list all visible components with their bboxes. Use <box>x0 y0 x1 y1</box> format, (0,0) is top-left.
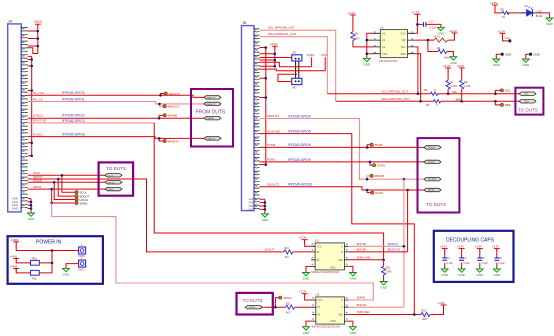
svg-text:SDOUT2: SDOUT2 <box>267 183 280 187</box>
transistor U3 mux SN74LVC2G3157 <box>312 293 349 329</box>
resistor R9 1K <box>495 5 520 19</box>
svg-text:VCC: VCC <box>317 245 322 248</box>
wire JB to jumper JP1 <box>260 57 292 59</box>
svg-text:(BCKLT): (BCKLT) <box>388 242 399 246</box>
net label +5V0 <box>321 53 328 71</box>
svg-text:A2: A2 <box>382 45 386 49</box>
resistor R11 100K pulldown <box>382 260 392 282</box>
netlabel tag PCM0 <box>204 96 221 100</box>
svg-text:IFPCM0-GPIO6: IFPCM0-GPIO6 <box>288 143 311 147</box>
jumper JP2 bottom <box>292 78 302 89</box>
svg-text:+3.3V: +3.3V <box>347 11 355 15</box>
svg-text:R8: R8 <box>464 80 468 84</box>
svg-text:MUS1B: MUS1B <box>428 178 437 181</box>
svg-text:IFPCM0-GPIO1: IFPCM0-GPIO1 <box>62 98 85 102</box>
svg-text:SYNC2: SYNC2 <box>33 132 43 136</box>
ground JB <box>262 214 270 222</box>
svg-text:MAX1TX: MAX1TX <box>169 92 180 96</box>
svg-text:+3.3V: +3.3V <box>412 10 420 14</box>
svg-text:+3.3V: +3.3V <box>443 64 451 68</box>
wire U3 VCC <box>305 294 312 300</box>
pad POS5 <box>78 244 85 258</box>
connector JA pin number smudges <box>23 27 25 208</box>
svg-text:+3.3V: +3.3V <box>449 29 457 33</box>
svg-text:PCM1: PCM1 <box>267 158 276 162</box>
pin LRCLK testpoint <box>75 198 89 202</box>
ground U1 <box>363 58 371 66</box>
svg-text:MAX8TX: MAX8TX <box>207 137 216 140</box>
netlabel tag LRCLK <box>105 181 122 185</box>
wire U1 VCC net <box>415 14 441 33</box>
junction spare bus <box>30 65 33 68</box>
svg-text:+3.3V: +3.3V <box>438 301 446 305</box>
svg-text:R4: R4 <box>437 46 441 50</box>
power +3.3V SCL pullup <box>443 64 451 70</box>
svg-text:SDIN1: SDIN1 <box>80 201 89 205</box>
wire jumper select A <box>260 62 312 66</box>
netlabel tag SDIN2 <box>245 306 262 310</box>
svg-text:VCC: VCC <box>317 299 322 302</box>
svg-text:VCC: VCC <box>400 31 406 35</box>
wire net SDOUT1 / IFPCM0-GPIO4 <box>260 114 425 180</box>
svg-text:4K7: 4K7 <box>355 37 360 41</box>
svg-text:+3.3V: +3.3V <box>440 245 447 249</box>
svg-text:IFPCM0-GPIO10: IFPCM0-GPIO10 <box>288 183 312 187</box>
svg-text:4K64: 4K64 <box>444 56 451 60</box>
svg-text:SCIN-SEL: SCIN-SEL <box>267 129 281 133</box>
wire via FB2 <box>16 251 53 273</box>
wire net SDI route to U3 <box>52 203 374 300</box>
svg-text:R3 0: R3 0 <box>435 35 441 39</box>
svg-text:+3.3V: +3.3V <box>299 236 307 240</box>
svg-text:MAX1CX: MAX1CX <box>168 105 180 109</box>
power +3.3V LED <box>490 1 499 7</box>
svg-text:R12: R12 <box>286 303 291 306</box>
ground R4 <box>450 57 458 65</box>
svg-text:POWER IN: POWER IN <box>36 240 62 246</box>
power +3.3V JB <box>270 42 278 48</box>
svg-text:0.1µF: 0.1µF <box>447 262 454 265</box>
capacitor C6 0.1uF <box>494 249 505 269</box>
netlabel tag MAX8TX <box>204 137 221 141</box>
svg-text:4K7: 4K7 <box>286 312 291 315</box>
power +VDD <box>11 238 20 244</box>
svg-text:R13: R13 <box>422 309 427 312</box>
pin MAX8B <box>163 114 177 118</box>
svg-text:R2: R2 <box>355 32 359 36</box>
svg-text:GND: GND <box>249 204 255 208</box>
svg-text:U1: U1 <box>380 25 384 29</box>
svg-text:WP: WP <box>402 38 406 42</box>
svg-text:+3.3V: +3.3V <box>270 42 278 46</box>
connector JA pin numbers <box>22 28 24 206</box>
wire net SCL bus <box>327 89 519 95</box>
power +3.3V cap C5 <box>475 245 483 251</box>
connector JA body <box>8 20 22 212</box>
wire U1 A0 A1 VSS to ground <box>366 33 373 58</box>
svg-text:VSS: VSS <box>382 52 387 56</box>
wire net SDIN1-SEL <box>349 256 385 262</box>
box TO DUTS left <box>99 162 134 195</box>
capacitor C3 0.1uF <box>442 249 453 269</box>
wire net BCK vertical V1 <box>403 179 405 307</box>
wire net SCIN-SEL / IFPCM0-GPIO5 <box>260 129 415 314</box>
wire net SYNC1 / IFPCM0-GPIO2 <box>28 113 204 119</box>
svg-text:R11: R11 <box>386 267 391 270</box>
svg-text:GND: GND <box>249 201 255 205</box>
svg-text:PCKB: PCKB <box>375 143 383 147</box>
svg-text:SCL: SCL <box>524 93 529 96</box>
svg-text:SEL: SEL <box>338 259 343 262</box>
svg-text:BLUE: BLUE <box>536 15 543 18</box>
pin MUS2 testpoint <box>371 191 384 195</box>
resistor R3 0 ohm WP <box>415 33 454 42</box>
wire net BCK2B <box>349 248 408 252</box>
netlabel tag MUS2 <box>424 188 441 192</box>
junction spare bus <box>30 89 33 92</box>
resistor R12 4K7 SDIN2 <box>286 303 312 315</box>
power +VIN2 input <box>10 264 20 270</box>
svg-text:GND: GND <box>249 207 255 211</box>
svg-text:R10: R10 <box>285 247 290 250</box>
wire net SCL-I/PPCM0_OUT <box>260 26 336 102</box>
svg-text:R9: R9 <box>501 7 505 11</box>
netlabel tag PCKB <box>424 146 441 150</box>
netlabel tag SCLK <box>105 174 122 178</box>
ground U2 right <box>349 266 357 280</box>
svg-text:2.21K: 2.21K <box>450 84 457 88</box>
ground R11 <box>380 282 388 290</box>
svg-text:R7: R7 <box>450 80 454 84</box>
capacitor C5 0.1uF <box>477 249 488 269</box>
wire net SDOUT2 / IFPCM0-GPIO10 <box>260 183 425 193</box>
op-amp U1 EEPROM 24LC010 <box>373 25 416 62</box>
svg-text:JB: JB <box>242 21 247 25</box>
svg-text:SDIN: SDIN <box>108 189 114 191</box>
svg-text:SCL: SCL <box>505 89 511 93</box>
ground U3 left <box>303 321 312 335</box>
resistor R2 4K7 <box>351 15 373 47</box>
junction spare bus <box>30 155 33 158</box>
svg-text:U2: U2 <box>315 239 319 243</box>
svg-text:SDIN1-SEL: SDIN1-SEL <box>357 256 372 260</box>
svg-text:+3.3V: +3.3V <box>475 245 482 249</box>
netlabel tag PCM1 <box>204 102 221 106</box>
svg-text:SDIM2: SDIM2 <box>357 296 366 300</box>
pin PCKN testpoint <box>372 163 384 167</box>
wire U2 VCC <box>305 240 312 247</box>
svg-text:+3.3V: +3.3V <box>492 245 499 249</box>
svg-text:MAX8B: MAX8B <box>207 117 215 120</box>
svg-text:MAX8TX: MAX8TX <box>168 139 179 143</box>
wire net SDIN2 <box>262 298 286 309</box>
svg-text:102K: 102K <box>422 318 428 321</box>
svg-text:SEL: SEL <box>338 314 343 317</box>
svg-text:FB1: FB1 <box>32 256 37 260</box>
svg-text:JA: JA <box>8 20 13 24</box>
wire via FB1 <box>16 258 52 263</box>
netlabel tag SCL <box>519 92 536 96</box>
power +3.3V SDIN-SEL <box>438 301 447 307</box>
netlabel tag MUS1B <box>424 178 441 182</box>
wire net SCLK <box>28 171 105 192</box>
wire net PA_CS / IFPCM0-GPIO1 <box>28 97 204 106</box>
svg-text:+3.3V: +3.3V <box>497 29 505 33</box>
power +3.3V at WP <box>449 29 457 35</box>
svg-text:DOUT SD: DOUT SD <box>33 119 47 123</box>
svg-text:+VIN2: +VIN2 <box>10 264 18 268</box>
wire U1 SCL drop <box>415 47 418 94</box>
wire net DOUT_SD / IFPCM0-GPIO3 <box>28 119 155 123</box>
svg-text:0.1µF: 0.1µF <box>482 262 489 265</box>
jumper JP1 top <box>292 51 302 61</box>
resistor R8 2.21K <box>460 68 471 101</box>
wire net PA_CLK / IFPCM0-GPIO0 <box>28 91 204 97</box>
svg-text:24LC010-I/SN: 24LC010-I/SN <box>379 59 397 63</box>
net label GND2 <box>307 53 315 67</box>
svg-text:TO DUTS: TO DUTS <box>518 107 538 112</box>
svg-text:IFPCM0-GPIO9: IFPCM0-GPIO9 <box>288 158 311 162</box>
JB GND pin names <box>249 197 255 211</box>
pin SDIN2 testpoint <box>279 296 292 300</box>
svg-text:4K7: 4K7 <box>285 256 290 259</box>
svg-text:+3.3V: +3.3V <box>456 64 464 68</box>
power +3.3V at U1 VCC <box>412 10 421 16</box>
svg-text:JP2: JP2 <box>292 85 297 89</box>
svg-text:IFPCM0-GPIO0: IFPCM0-GPIO0 <box>62 91 85 95</box>
svg-text:FB2: FB2 <box>32 276 37 280</box>
ferrite FB1 <box>31 256 40 265</box>
wire net DOUT to SDOUT feed <box>28 175 284 252</box>
box TO DUTS mid-right <box>418 138 460 212</box>
svg-text:(BCKLT2): (BCKLT2) <box>388 248 400 252</box>
svg-text:IFPCM0-GPIO8: IFPCM0-GPIO8 <box>62 133 85 137</box>
junction on +VCC bus <box>37 37 40 40</box>
svg-text:JP1: JP1 <box>292 51 297 55</box>
resistor R6 0 ohm SDA <box>426 100 441 107</box>
svg-text:IFPCM0-GPIO3: IFPCM0-GPIO3 <box>62 119 85 123</box>
power +VCC top of JA <box>34 20 43 26</box>
svg-text:BCK1B: BCK1B <box>357 242 366 246</box>
svg-text:TO DUTS: TO DUTS <box>426 202 446 207</box>
power +3.3V cap C3 <box>440 245 448 251</box>
svg-text:3.3V: 3.3V <box>505 37 510 40</box>
power +3.3V U3 <box>299 290 308 296</box>
wire net VDD <box>16 242 78 252</box>
svg-text:MAX1TX: MAX1TX <box>207 96 216 99</box>
wire jumper select B <box>260 69 326 71</box>
ground U3 right <box>349 321 357 335</box>
svg-text:+VCC: +VCC <box>34 20 43 24</box>
svg-text:GND: GND <box>78 268 84 271</box>
svg-text:BCK2N: BCK2N <box>357 303 366 307</box>
svg-text:SDIN2: SDIN2 <box>249 307 256 309</box>
ground C6 <box>493 269 501 277</box>
svg-text:MUS2: MUS2 <box>428 189 435 192</box>
svg-text:GND: GND <box>330 267 336 270</box>
svg-text:PA_CS: PA_CS <box>33 97 43 101</box>
pin MUS1B testpoint <box>370 174 384 178</box>
pin PCKB testpoint <box>370 143 382 147</box>
wire net BCK1B <box>349 242 406 248</box>
pin SCL testpoint <box>500 89 510 93</box>
pin SDIN1 testpoint <box>75 201 88 205</box>
svg-text:MUS2: MUS2 <box>375 191 383 195</box>
svg-text:DECOUPLING CAPS: DECOUPLING CAPS <box>446 238 495 244</box>
svg-text:+VIN1: +VIN1 <box>10 254 18 258</box>
svg-text:C2: C2 <box>430 19 434 23</box>
ground C2 <box>438 27 446 35</box>
wire jumper links <box>296 61 299 78</box>
svg-text:+VDD: +VDD <box>11 238 19 242</box>
svg-text:2.21K: 2.21K <box>464 84 471 88</box>
svg-text:GND2: GND2 <box>307 53 315 57</box>
wire JA ground ties <box>28 199 31 213</box>
netlabel tag MAX8B <box>204 117 221 121</box>
ground C3 <box>441 269 449 277</box>
svg-text:SDA: SDA <box>400 52 406 56</box>
pin SCLK testpoint <box>75 191 87 195</box>
wire net SDIN-SEL <box>349 310 422 316</box>
svg-text:PCKB: PCKB <box>428 146 435 149</box>
ground C5 <box>476 269 484 277</box>
wire net BCK2N <box>349 303 404 307</box>
svg-text:BCK2B: BCK2B <box>357 248 366 252</box>
svg-text:+5V0: +5V0 <box>321 53 328 57</box>
connector JB pins <box>254 28 260 208</box>
svg-text:SCL-I/PPCM0_OUT: SCL-I/PPCM0_OUT <box>268 26 295 30</box>
svg-text:TO DUTS: TO DUTS <box>243 298 263 303</box>
svg-text:SDA-N/PPCM1_OUT: SDA-N/PPCM1_OUT <box>268 32 297 36</box>
svg-text:FROM DUTS: FROM DUTS <box>196 110 226 116</box>
svg-text:MAX1CX: MAX1CX <box>207 103 217 106</box>
svg-text:GND: GND <box>534 53 540 57</box>
pad GNDP <box>78 257 85 271</box>
svg-text:SDOUT: SDOUT <box>265 248 275 252</box>
svg-text:GND: GND <box>249 197 255 201</box>
wire JB spare bus <box>260 46 268 166</box>
svg-text:A0: A0 <box>382 31 386 35</box>
svg-text:PA_CLK: PA_CLK <box>33 91 44 95</box>
wire +VCC vertical bus <box>28 24 38 53</box>
ground testpoint 2 <box>522 59 530 67</box>
JA GND pin names <box>12 197 18 211</box>
capacitor C2 0.1uF <box>424 19 437 29</box>
svg-text:PCKN: PCKN <box>428 161 435 164</box>
svg-text:MAX8B: MAX8B <box>168 114 178 118</box>
resistor R4 4K64 WP pulldown <box>428 40 454 60</box>
power +V3V3 input <box>10 254 20 260</box>
netlabel tag PCKN <box>424 160 441 164</box>
pin +3.3V testpoint <box>497 29 511 42</box>
svg-text:R6: R6 <box>426 103 430 107</box>
ground JA <box>28 213 36 221</box>
wire net PCM1 / IFPCM0-GPIO9 <box>260 158 425 166</box>
svg-text:+3.3V: +3.3V <box>299 290 307 294</box>
svg-text:R5: R5 <box>424 88 428 92</box>
box FROM DUTS <box>191 89 233 147</box>
svg-text:SCL: SCL <box>452 90 458 94</box>
wire jumper JP2 stub <box>278 74 297 81</box>
ground C4 <box>458 269 466 277</box>
wire net SDA-N/PPCM1_OUT <box>260 32 328 94</box>
ground LED <box>546 18 554 26</box>
connector JB pin numbers <box>255 29 257 207</box>
svg-text:SCL-I/PPCM0_OUT: SCL-I/PPCM0_OUT <box>382 89 409 93</box>
svg-text:0.1µF: 0.1µF <box>499 262 506 265</box>
wire LED cathode to ground <box>532 12 534 14</box>
svg-text:0.1µF: 0.1µF <box>463 262 470 265</box>
netlabel tag SDIN <box>105 187 122 191</box>
svg-text:U3: U3 <box>316 293 320 297</box>
power +3.3V at U1 pullup <box>347 11 356 17</box>
power +3.3V cap C6 <box>492 245 500 251</box>
pin GND testpoint 2 <box>526 53 540 60</box>
svg-text:A1: A1 <box>382 38 386 42</box>
svg-text:IFPCM0-GPIO4: IFPCM0-GPIO4 <box>288 114 311 118</box>
ground testpoint 1 <box>493 59 501 67</box>
box POWER IN <box>8 236 103 284</box>
pin SDOUT testpoint <box>75 194 90 198</box>
junction on +VCC bus <box>37 30 40 33</box>
box TO DUTS top-right <box>515 88 543 115</box>
wire net SDA bus <box>336 97 519 105</box>
svg-text:LRCLK: LRCLK <box>33 178 42 182</box>
ferrite FB2 <box>31 270 40 280</box>
svg-text:SN74LVC2G3157DCUR: SN74LVC2G3157DCUR <box>312 324 340 328</box>
LED D1 blue <box>520 4 543 18</box>
svg-text:PCM0: PCM0 <box>267 143 276 147</box>
svg-text:SCL: SCL <box>401 45 407 49</box>
svg-text:MUS1B: MUS1B <box>375 174 385 178</box>
svg-text:TO DUTS: TO DUTS <box>106 166 126 171</box>
pin MAX1CX <box>163 105 179 109</box>
svg-text:IFPCM0-GPIO5: IFPCM0-GPIO5 <box>288 130 311 134</box>
connector JB pin number smudges <box>256 28 258 210</box>
pin MAX1TX <box>164 92 180 96</box>
wire JB ground ties <box>260 199 265 214</box>
svg-text:SYNC1: SYNC1 <box>33 113 43 117</box>
svg-text:PCKN: PCKN <box>377 163 385 167</box>
wire JA spare-pin bus <box>28 56 32 155</box>
wire net PCM0 / IFPCM0-GPIO6 <box>260 143 425 149</box>
wire pad GND to ground <box>66 264 79 269</box>
svg-text:SDA-N/PPCM1_OUT: SDA-N/PPCM1_OUT <box>382 97 411 101</box>
svg-text:100K: 100K <box>386 271 392 274</box>
pin SDA testpoint <box>500 103 510 107</box>
ground U2 left <box>303 266 312 280</box>
junction spare bus <box>30 58 33 61</box>
svg-text:SDIN1: SDIN1 <box>33 185 42 189</box>
pin MAX8TX <box>163 139 179 143</box>
box DECOUPLING CAPS <box>434 231 514 282</box>
svg-text:SCLK: SCLK <box>108 175 114 177</box>
svg-text:GND: GND <box>505 53 511 57</box>
svg-text:LRCLK: LRCLK <box>108 182 116 184</box>
resistor R5 0 ohm SCL <box>424 88 438 95</box>
svg-text:SN74LVC2G3157DCUR: SN74LVC2G3157DCUR <box>311 270 339 274</box>
resistor R13 102K pullup <box>421 305 443 321</box>
wire +3.3V stub bus JB <box>260 46 277 67</box>
svg-text:SDIN2: SDIN2 <box>283 296 292 300</box>
power +3.3V SDA pullup <box>456 64 464 70</box>
svg-text:1K: 1K <box>502 15 505 19</box>
svg-text:GND: GND <box>12 207 18 211</box>
svg-text:SDA: SDA <box>524 100 529 103</box>
svg-text:GND: GND <box>331 320 337 323</box>
resistor R10 4K7 SDOUT <box>265 247 312 259</box>
svg-text:SDA: SDA <box>456 97 462 101</box>
